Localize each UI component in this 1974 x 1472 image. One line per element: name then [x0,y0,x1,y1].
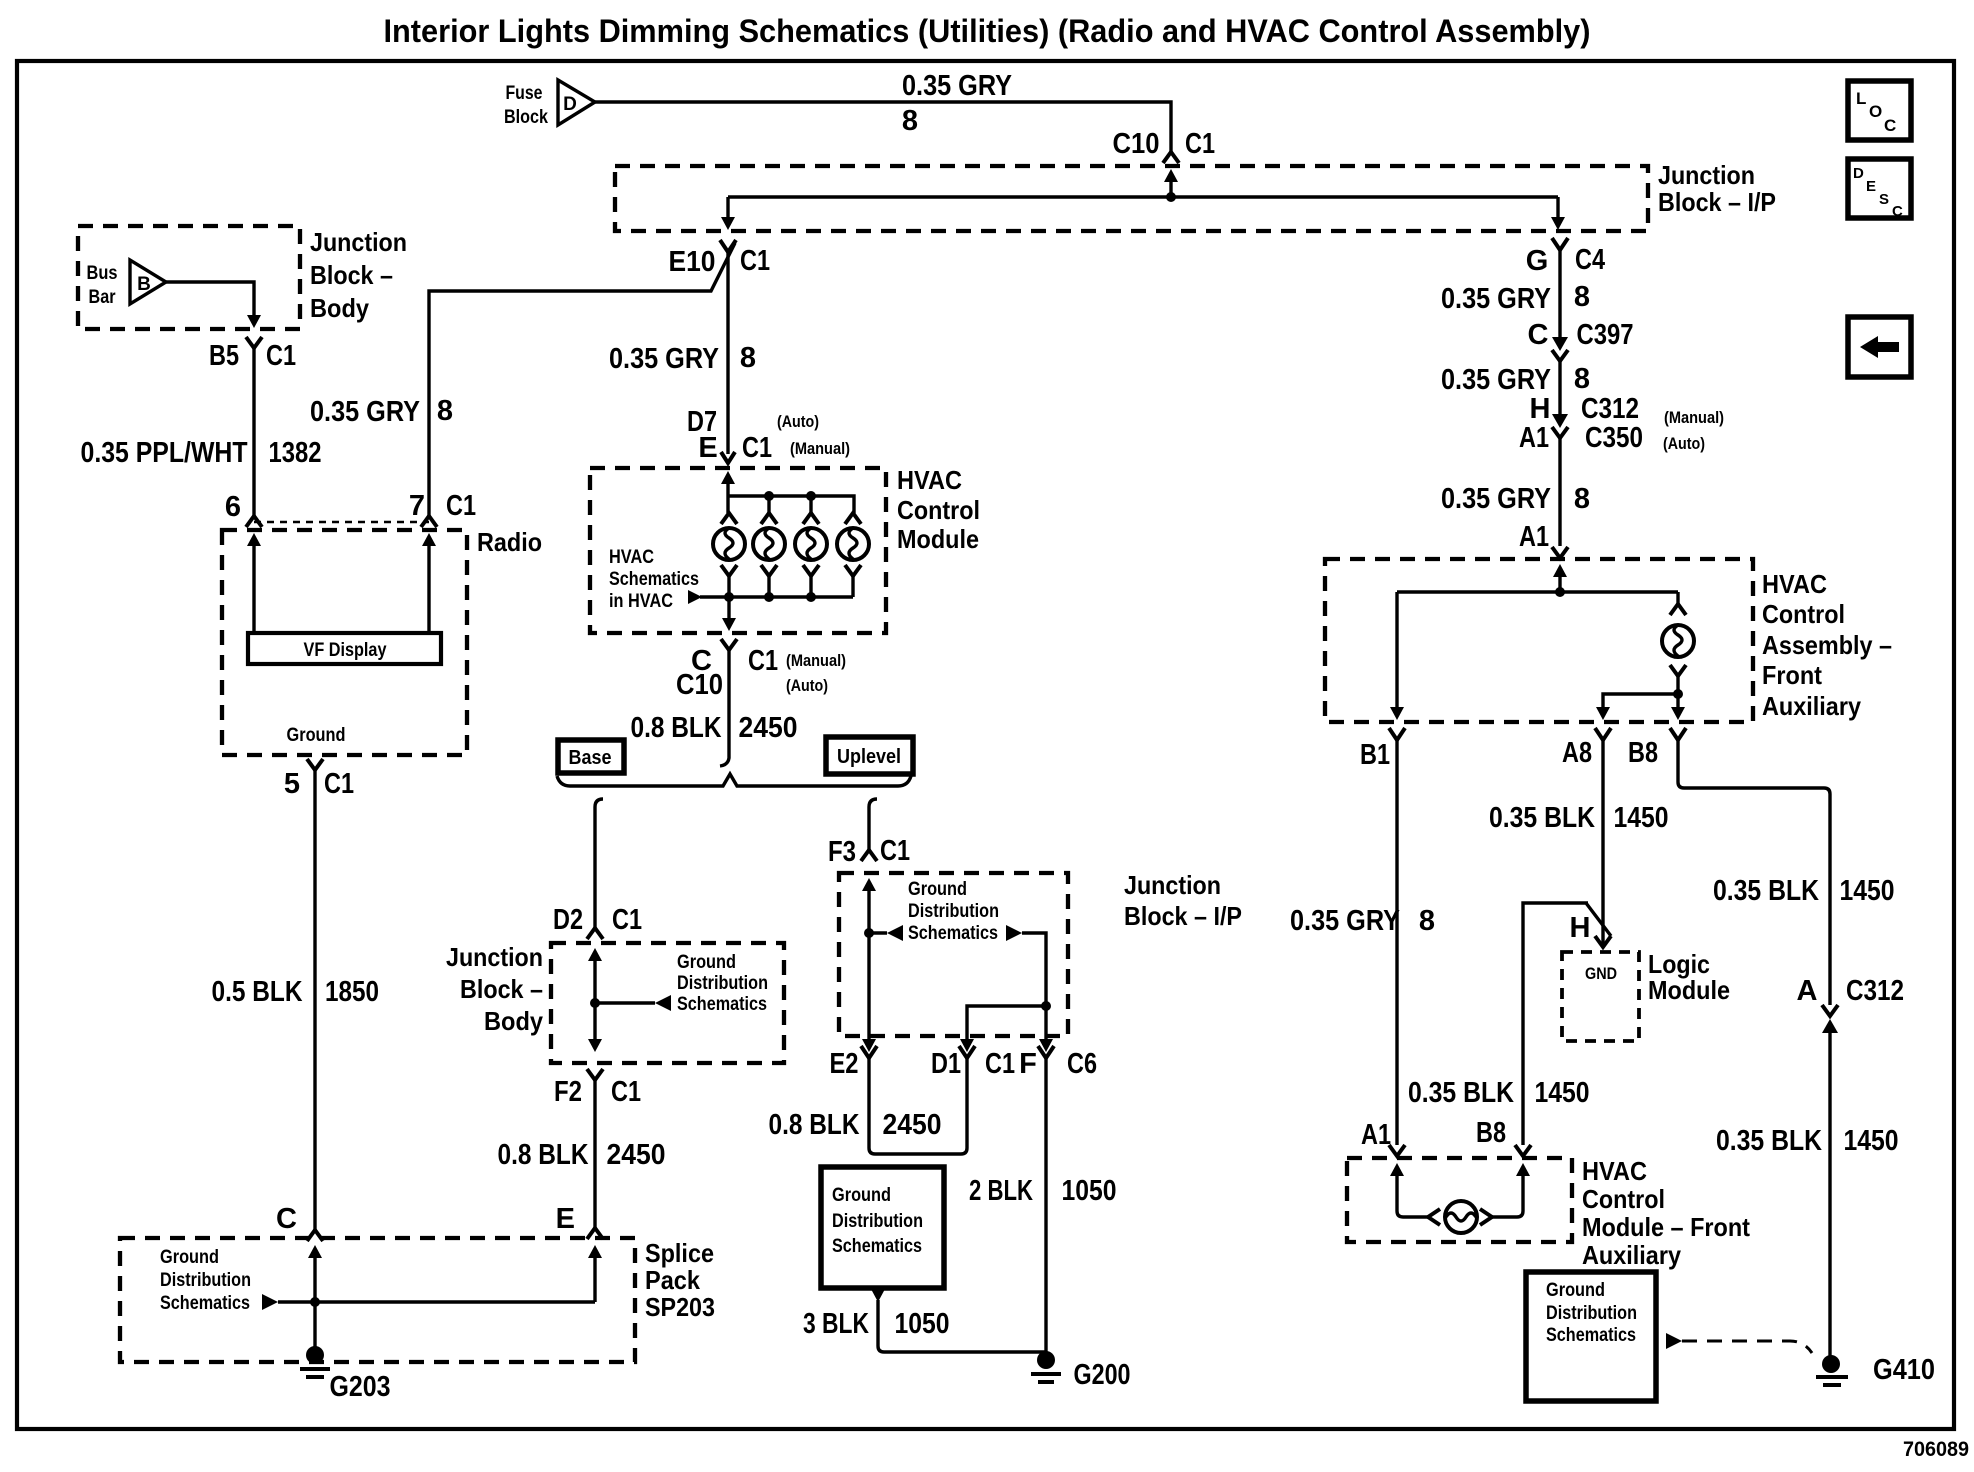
exit arrows from I/P block [867,933,870,1040]
svg-text:1382: 1382 [269,437,322,469]
svg-text:O: O [1869,102,1882,121]
svg-text:1450: 1450 [1614,802,1669,834]
entry arrow radio pin 6 [247,533,261,546]
wire: fuse block to junction block I/P, 0.35 GRY 8 [595,102,1171,152]
svg-text:C1: C1 [1185,128,1215,160]
svg-text:6: 6 [225,491,241,523]
svg-text:B: B [137,274,151,295]
ground G203 [300,1346,391,1403]
svg-text:C1: C1 [742,432,772,464]
HVAC control module dashed box [590,468,886,633]
wire: B1 to HVAC control module front auxiliary A1, 0.35 GRY 8 [1395,740,1398,1145]
entry arrow inside bottom module at A1 [1390,1163,1404,1176]
connector C1 pin 6 fork [246,516,262,527]
LOC button box [1848,81,1911,140]
svg-text:0.8 BLK: 0.8 BLK [769,1109,860,1141]
svg-text:1050: 1050 [1062,1175,1117,1207]
svg-text:A1: A1 [1519,521,1549,553]
svg-text:0.35 GRY: 0.35 GRY [1441,283,1551,315]
VF Display box inside radio [248,633,441,664]
svg-text:S: S [1879,191,1889,208]
inline connector C312 pin A (fork and arrow) [1797,975,1904,1033]
reference arrow from schematics box [1666,1333,1682,1349]
svg-text:Interior Lights Dimming Schema: Interior Lights Dimming Schematics (Util… [384,13,1591,49]
entry arrow inside junction block I/P [1164,169,1178,182]
assembly lamp branch [1662,592,1694,694]
svg-text:C1: C1 [324,768,354,800]
svg-text:Block –: Block – [460,974,543,1004]
svg-text:(Manual): (Manual) [786,651,846,670]
junction node on return bus [806,592,816,602]
svg-text:8: 8 [1419,905,1435,937]
wire: G to C397, 0.35 GRY 8 [1558,250,1561,338]
svg-text:C1: C1 [446,490,476,522]
svg-text:Pack: Pack [645,1265,700,1295]
connector C6 pin F fork [1038,1046,1054,1058]
splice pack entry fork C [307,1230,323,1241]
svg-text:0.8 BLK: 0.8 BLK [631,712,722,744]
connector pin A8 fork [1595,728,1611,740]
wire: B5 to radio pin 6, 0.35 PPL/WHT 1382 [252,348,255,516]
connector fork at HVAC control module entry [721,452,735,463]
svg-text:Uplevel: Uplevel [837,746,901,768]
svg-text:C1: C1 [880,835,910,867]
svg-text:A1: A1 [1519,422,1549,454]
svg-text:E: E [698,432,717,464]
connector pin B1 fork [1389,728,1405,740]
svg-text:C350: C350 [1585,422,1643,454]
wire: F/C6 to ground G200, 2 BLK 1050 [1044,1058,1047,1358]
svg-text:E: E [1866,178,1876,195]
svg-text:Module: Module [897,524,979,554]
svg-text:1050: 1050 [895,1308,950,1340]
connector C10/C1 fork at junction block I/P [1163,152,1179,163]
svg-text:F: F [1019,1048,1037,1080]
svg-text:A1: A1 [1361,1119,1391,1151]
svg-text:0.35 BLK: 0.35 BLK [1716,1125,1822,1157]
connector C1 pin 7 fork [421,516,437,527]
junction block I/P dashed box (middle) [839,873,1068,1036]
svg-text:L: L [1856,89,1866,108]
lamp 4 forks and bulb [837,513,869,597]
svg-text:(Auto): (Auto) [1663,434,1705,453]
svg-text:HVAC: HVAC [609,547,654,568]
svg-text:5: 5 [284,768,300,800]
right leg wire to G with exit arrow [1556,197,1559,218]
svg-text:(Auto): (Auto) [777,412,819,431]
wire: logic module H junction to front auxiliary B8, 0.35 BLK 1450 [1523,903,1611,1145]
radio dashed box [222,530,467,755]
svg-text:G203: G203 [330,1371,391,1403]
svg-text:2450: 2450 [607,1139,666,1171]
exit arrow below schematics box [871,1289,885,1302]
svg-text:Auxiliary: Auxiliary [1762,691,1861,721]
connector C1 pin E10 fork [720,240,736,252]
svg-text:8: 8 [740,342,756,374]
ground G200 [1031,1351,1131,1391]
connector C1 pin F3 fork [861,850,877,861]
svg-text:GND: GND [1585,964,1617,983]
svg-text:Fuse: Fuse [506,83,543,104]
svg-text:G200: G200 [1074,1359,1131,1391]
svg-text:Distribution: Distribution [677,973,768,994]
svg-text:Distribution: Distribution [160,1270,251,1291]
wire: B8 right and down to C312 A, 0.35 BLK 1450 [1678,740,1830,1005]
junction node on C6 leg [1041,1001,1051,1011]
entry arrow inside junction block I/P at F3 [862,878,876,891]
svg-text:C312: C312 [1581,393,1639,425]
svg-text:Block – I/P: Block – I/P [1124,901,1242,931]
svg-text:8: 8 [1574,281,1590,313]
svg-text:B5: B5 [209,340,239,372]
svg-text:8: 8 [1574,483,1590,515]
wire: E2 to D1 U loop, 0.8 BLK 2450 [869,1058,967,1154]
svg-text:Ground: Ground [908,879,967,900]
wire: lamp node to A8 leg with exit arrow [1603,694,1678,708]
left leg wire to B1 with exit arrow [1395,592,1398,708]
svg-text:C1: C1 [748,645,778,677]
svg-text:B8: B8 [1628,737,1658,769]
svg-text:Junction: Junction [1124,870,1221,900]
ground distribution schematics solid box (middle) [821,1167,944,1288]
junction node on feed bus [806,491,816,501]
svg-text:C1: C1 [611,1076,641,1108]
svg-text:Assembly –: Assembly – [1762,630,1892,660]
svg-text:706089: 706089 [1903,1438,1969,1461]
svg-text:E: E [556,1203,575,1235]
svg-text:2450: 2450 [883,1109,942,1141]
svg-text:Body: Body [484,1006,543,1036]
svg-text:Ground: Ground [677,952,736,973]
svg-text:C1: C1 [612,904,642,936]
junction node inside I/P block [864,928,874,938]
Base branch wire with curl [595,799,603,928]
svg-text:8: 8 [902,105,918,137]
svg-text:B1: B1 [1360,739,1390,771]
svg-text:Bar: Bar [89,287,117,308]
svg-text:SP203: SP203 [645,1292,715,1322]
wire: C350 to HVAC control assembly, 0.35 GRY 8 [1558,438,1561,546]
svg-text:C: C [1884,116,1896,135]
svg-text:E2: E2 [830,1048,859,1080]
svg-text:C397: C397 [1577,319,1634,351]
svg-text:Ground: Ground [287,725,346,746]
connector pin A1 fork at bottom module [1389,1145,1405,1156]
svg-text:Junction: Junction [310,227,407,257]
svg-text:8: 8 [1574,363,1590,395]
svg-text:(Manual): (Manual) [1664,408,1724,427]
svg-text:E10: E10 [669,246,716,278]
svg-text:Body: Body [310,293,369,323]
svg-text:(Auto): (Auto) [786,676,828,695]
svg-text:F3: F3 [828,836,856,868]
svg-text:C10: C10 [1113,128,1160,160]
junction node on feed bus [764,491,774,501]
bus bar source symbol B [87,260,167,308]
svg-text:Block –: Block – [310,260,393,290]
junction node on return bus [764,592,774,602]
HVAC control assembly front auxiliary dashed box [1325,559,1753,722]
wire: F2 to splice pack, 0.8 BLK 2450 [593,1080,596,1228]
svg-text:C312: C312 [1846,975,1904,1007]
svg-text:Schematics: Schematics [908,923,998,944]
svg-text:Schematics: Schematics [609,569,699,590]
connector C1 pin E2 fork [861,1046,877,1058]
bottom module lamp with side forks [1428,1201,1492,1233]
svg-text:2 BLK: 2 BLK [969,1175,1033,1207]
inline connector C397 pin C (arrow and fork) [1528,319,1634,361]
svg-text:0.8 BLK: 0.8 BLK [498,1139,589,1171]
svg-text:A8: A8 [1562,737,1592,769]
svg-text:C1: C1 [740,245,770,277]
svg-text:C: C [1892,203,1903,220]
svg-text:C10: C10 [676,669,723,701]
wire: module pin C down to split, 0.8 BLK 2450 [720,650,729,766]
svg-text:0.35 BLK: 0.35 BLK [1489,802,1595,834]
svg-text:in HVAC: in HVAC [609,591,673,612]
ground distribution schematics note with arrows (I/P block) [869,931,887,934]
svg-text:7: 7 [409,490,425,522]
svg-text:Auxiliary: Auxiliary [1582,1240,1681,1270]
junction node on return bus [724,592,734,602]
svg-text:D1: D1 [931,1048,961,1080]
junction block I/P dashed box (top) [615,166,1648,231]
svg-text:Junction: Junction [446,942,543,972]
connector C1/C10 pin C fork below module [721,639,737,650]
ground G410 [1816,1354,1935,1386]
inline connector C312/C350 pins H/A1 (arrow and fork) [1519,393,1724,454]
wire: bus bar to B5 exit [166,282,254,316]
junction block body dashed box (top left) [78,226,300,329]
svg-text:HVAC: HVAC [1582,1156,1647,1186]
wire: A8 to logic module H, 0.35 BLK 1450 [1601,740,1604,947]
svg-text:1450: 1450 [1844,1125,1899,1157]
connector pin H fork at logic module [1595,936,1611,947]
junction node inside I/P block [1166,192,1176,202]
svg-text:Distribution: Distribution [1546,1303,1637,1324]
wire: E10 to HVAC control module, 0.35 GRY 8 [726,252,729,454]
svg-text:D: D [1853,165,1864,182]
svg-text:VF Display: VF Display [304,640,387,661]
wire: radio pin 5 to splice pack, 0.5 BLK 1850 [313,770,316,1230]
connector C1 pin B5 fork [246,337,262,348]
svg-text:D: D [563,94,577,115]
svg-text:0.35 GRY: 0.35 GRY [1290,905,1400,937]
lamp 3 forks and bulb [795,513,827,597]
connector C1 pin F2 fork [587,1069,603,1080]
Uplevel variant tag box [826,737,913,774]
junction block body dashed box (middle) [551,943,784,1063]
svg-text:Distribution: Distribution [908,901,999,922]
svg-text:0.5 BLK: 0.5 BLK [212,976,303,1008]
wire: lamp node to B8 leg with exit arrow [1676,694,1679,708]
svg-text:0.35 GRY: 0.35 GRY [902,70,1012,102]
svg-text:3 BLK: 3 BLK [803,1308,869,1340]
svg-text:C: C [1528,319,1549,351]
svg-text:Distribution: Distribution [832,1211,923,1232]
svg-text:Splice: Splice [645,1238,714,1268]
svg-text:(Manual): (Manual) [790,439,850,458]
svg-text:B8: B8 [1476,1117,1506,1149]
lamp 2 forks and bulb [753,513,785,597]
svg-text:HVAC: HVAC [897,465,962,495]
svg-text:Control: Control [1762,599,1845,629]
internal bus wire of junction block I/P [728,195,1558,198]
connector C1 pin 5 fork [307,759,323,770]
entry arrow inside splice pack at E [588,1245,602,1258]
svg-text:G: G [1526,245,1549,277]
junction node inside assembly [1555,587,1565,597]
svg-text:0.35 GRY: 0.35 GRY [1441,483,1551,515]
back-arrow button box [1848,317,1911,377]
internal bus wire of assembly [1397,590,1678,593]
svg-text:Base: Base [569,747,612,769]
svg-text:G410: G410 [1873,1354,1935,1386]
Uplevel branch wire with curl [869,799,877,850]
svg-text:Schematics: Schematics [832,1236,922,1257]
splice bus wire inside splice pack [278,1300,595,1303]
entry arrow inside assembly at A1 [1553,564,1567,577]
entry arrow inside splice pack at C [308,1245,322,1258]
svg-text:0.35 BLK: 0.35 BLK [1713,875,1819,907]
entry arrow inside bottom module at B8 [1516,1163,1530,1176]
ground distribution schematics reference wire and arrow (body block) [595,1001,655,1004]
connector C1 pin D2 fork [587,928,603,939]
svg-text:D2: D2 [553,904,583,936]
lamp return bus wire with reference arrow [688,590,702,604]
svg-text:Bus: Bus [87,263,118,284]
svg-text:0.35 GRY: 0.35 GRY [609,343,719,375]
svg-text:Control: Control [897,495,980,525]
splice pack entry fork E [587,1228,603,1239]
svg-text:Ground: Ground [1546,1280,1605,1301]
svg-text:C1: C1 [985,1048,1015,1080]
wire: right reference arrow to C6 leg [1022,933,1046,1006]
svg-text:Block – I/P: Block – I/P [1658,187,1776,217]
DESC button box [1848,159,1911,220]
wire: branch to D1 leg [967,1006,1046,1040]
svg-text:C1: C1 [266,340,296,372]
svg-text:Block: Block [504,107,548,128]
logic module dashed box with GND pin [1562,952,1639,1041]
svg-text:HVAC: HVAC [1762,569,1827,599]
junction node on splice bus [310,1297,320,1307]
svg-text:Ground: Ground [160,1247,219,1268]
svg-text:Ground: Ground [832,1185,891,1206]
svg-text:Schematics: Schematics [1546,1325,1636,1346]
dashed wire: schematics reference to ground G410 [1682,1341,1812,1353]
svg-text:A: A [1797,975,1818,1007]
svg-text:H: H [1530,393,1551,425]
svg-text:C4: C4 [1575,244,1605,276]
entry arrow inside HVAC control module [721,471,735,484]
svg-text:C: C [276,1203,297,1235]
svg-text:Schematics: Schematics [160,1293,250,1314]
left leg wire to E10 with exit arrow [726,197,729,218]
svg-text:Schematics: Schematics [677,994,767,1015]
junction node below assembly lamp [1673,689,1683,699]
svg-text:2450: 2450 [739,712,798,744]
connector pin B8 fork [1670,728,1686,740]
svg-text:8: 8 [437,395,453,427]
svg-text:Module – Front: Module – Front [1582,1212,1750,1242]
HVAC control module front auxiliary dashed box [1347,1158,1572,1242]
svg-text:H: H [1570,912,1591,944]
svg-text:C6: C6 [1067,1048,1097,1080]
brace split between Base and Uplevel branches [557,774,911,786]
connector C4 pin G fork [1552,238,1568,250]
svg-text:Junction: Junction [1658,160,1755,190]
svg-text:Control: Control [1582,1184,1665,1214]
svg-text:0.35 PPL/WHT: 0.35 PPL/WHT [81,437,248,469]
wire: splice node to ground G203 [313,1302,316,1352]
fuse block source symbol D [504,80,595,128]
connector pin B8 fork at bottom module [1515,1145,1531,1156]
connector C1 pin D1 fork [959,1046,975,1058]
junction node inside body block [590,998,600,1008]
wire: radio pin 7 up and over to E10 diagonal, 0.35 GRY 8 [429,243,735,516]
svg-text:1450: 1450 [1535,1077,1590,1109]
lamp 1 forks and bulb [713,513,745,597]
svg-text:1450: 1450 [1840,875,1895,907]
entry arrow inside junction block body [588,948,602,961]
wire: C397 to C312/C350, 0.35 GRY 8 [1558,361,1561,414]
entry arrow radio pin 7 [422,533,436,546]
svg-text:F2: F2 [554,1076,582,1108]
svg-text:Radio: Radio [477,527,542,557]
exit wire and arrow from body block [593,1003,596,1040]
svg-text:0.35 GRY: 0.35 GRY [1441,364,1551,396]
wire: C312 A to ground G410, 0.35 BLK 1450 [1828,1030,1831,1358]
connector face dashed line between pins 6 and 7 [254,521,429,524]
wire: schematics box to ground node, 3 BLK 1050 [878,1300,1046,1352]
svg-text:0.35 GRY: 0.35 GRY [310,396,420,428]
lamp feed bus wire [728,496,854,513]
lamp branch stubs [728,496,811,513]
splice pack SP203 dashed box [120,1238,635,1362]
svg-text:Module: Module [1648,975,1730,1005]
svg-text:1850: 1850 [325,976,379,1008]
svg-text:0.35 BLK: 0.35 BLK [1408,1077,1514,1109]
Base variant tag box [558,740,624,773]
ground distribution schematics solid box (right) [1526,1272,1656,1401]
exit wire and arrow from HVAC control module [727,597,730,619]
svg-text:Front: Front [1762,660,1822,690]
